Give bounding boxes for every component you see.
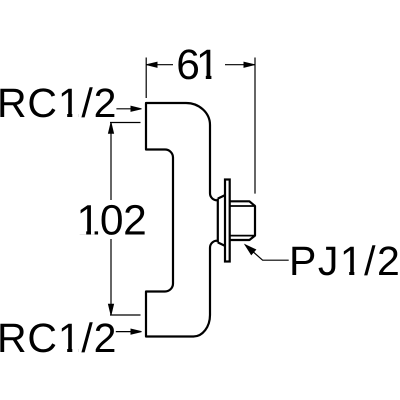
svg-text:61: 61 (176, 42, 218, 89)
leader arrowhead PJ1/2 (245, 245, 255, 255)
leader arrow RC1/2 top (116, 108, 133, 110)
masks to remove serif foot of digit 1 (target font has footless 1) (60, 74, 362, 352)
svg-text:PJ1/2: PJ1/2 (289, 238, 400, 284)
svg-text:RC1/2: RC1/2 (0, 315, 117, 361)
dim 102: top arrowhead (109, 123, 114, 134)
dim 102: lower segment (110, 239, 112, 315)
boss edge behind flange (217, 199, 219, 243)
dim 61: right segment (225, 64, 255, 66)
fitting body outline (146, 103, 218, 337)
dim 102: bottom extension line (110, 314, 141, 316)
dim 61: right extension line (254, 58, 256, 194)
leader line PJ1/2 (245, 245, 289, 260)
dim 102: upper segment (110, 123, 112, 200)
hex nut outline (230, 201, 255, 240)
dim 61: left segment (147, 64, 174, 66)
svg-text:RC1/2: RC1/2 (0, 80, 117, 126)
dim 61: right arrowhead (244, 62, 255, 67)
nut bottom chamfer line (230, 235, 255, 237)
nut top chamfer line (230, 205, 255, 207)
boss bottom chamfer (218, 242, 225, 246)
dim 102: bottom arrowhead (109, 304, 114, 315)
flange plate (225, 180, 230, 262)
svg-text:102: 102 (77, 197, 147, 244)
boss top chamfer (218, 195, 225, 199)
leader arrow RC1/2 bottom (116, 331, 133, 333)
dim 61: left arrowhead (147, 62, 158, 67)
dim 102: top extension line (110, 122, 141, 124)
dim 61: left extension line (145, 58, 147, 99)
